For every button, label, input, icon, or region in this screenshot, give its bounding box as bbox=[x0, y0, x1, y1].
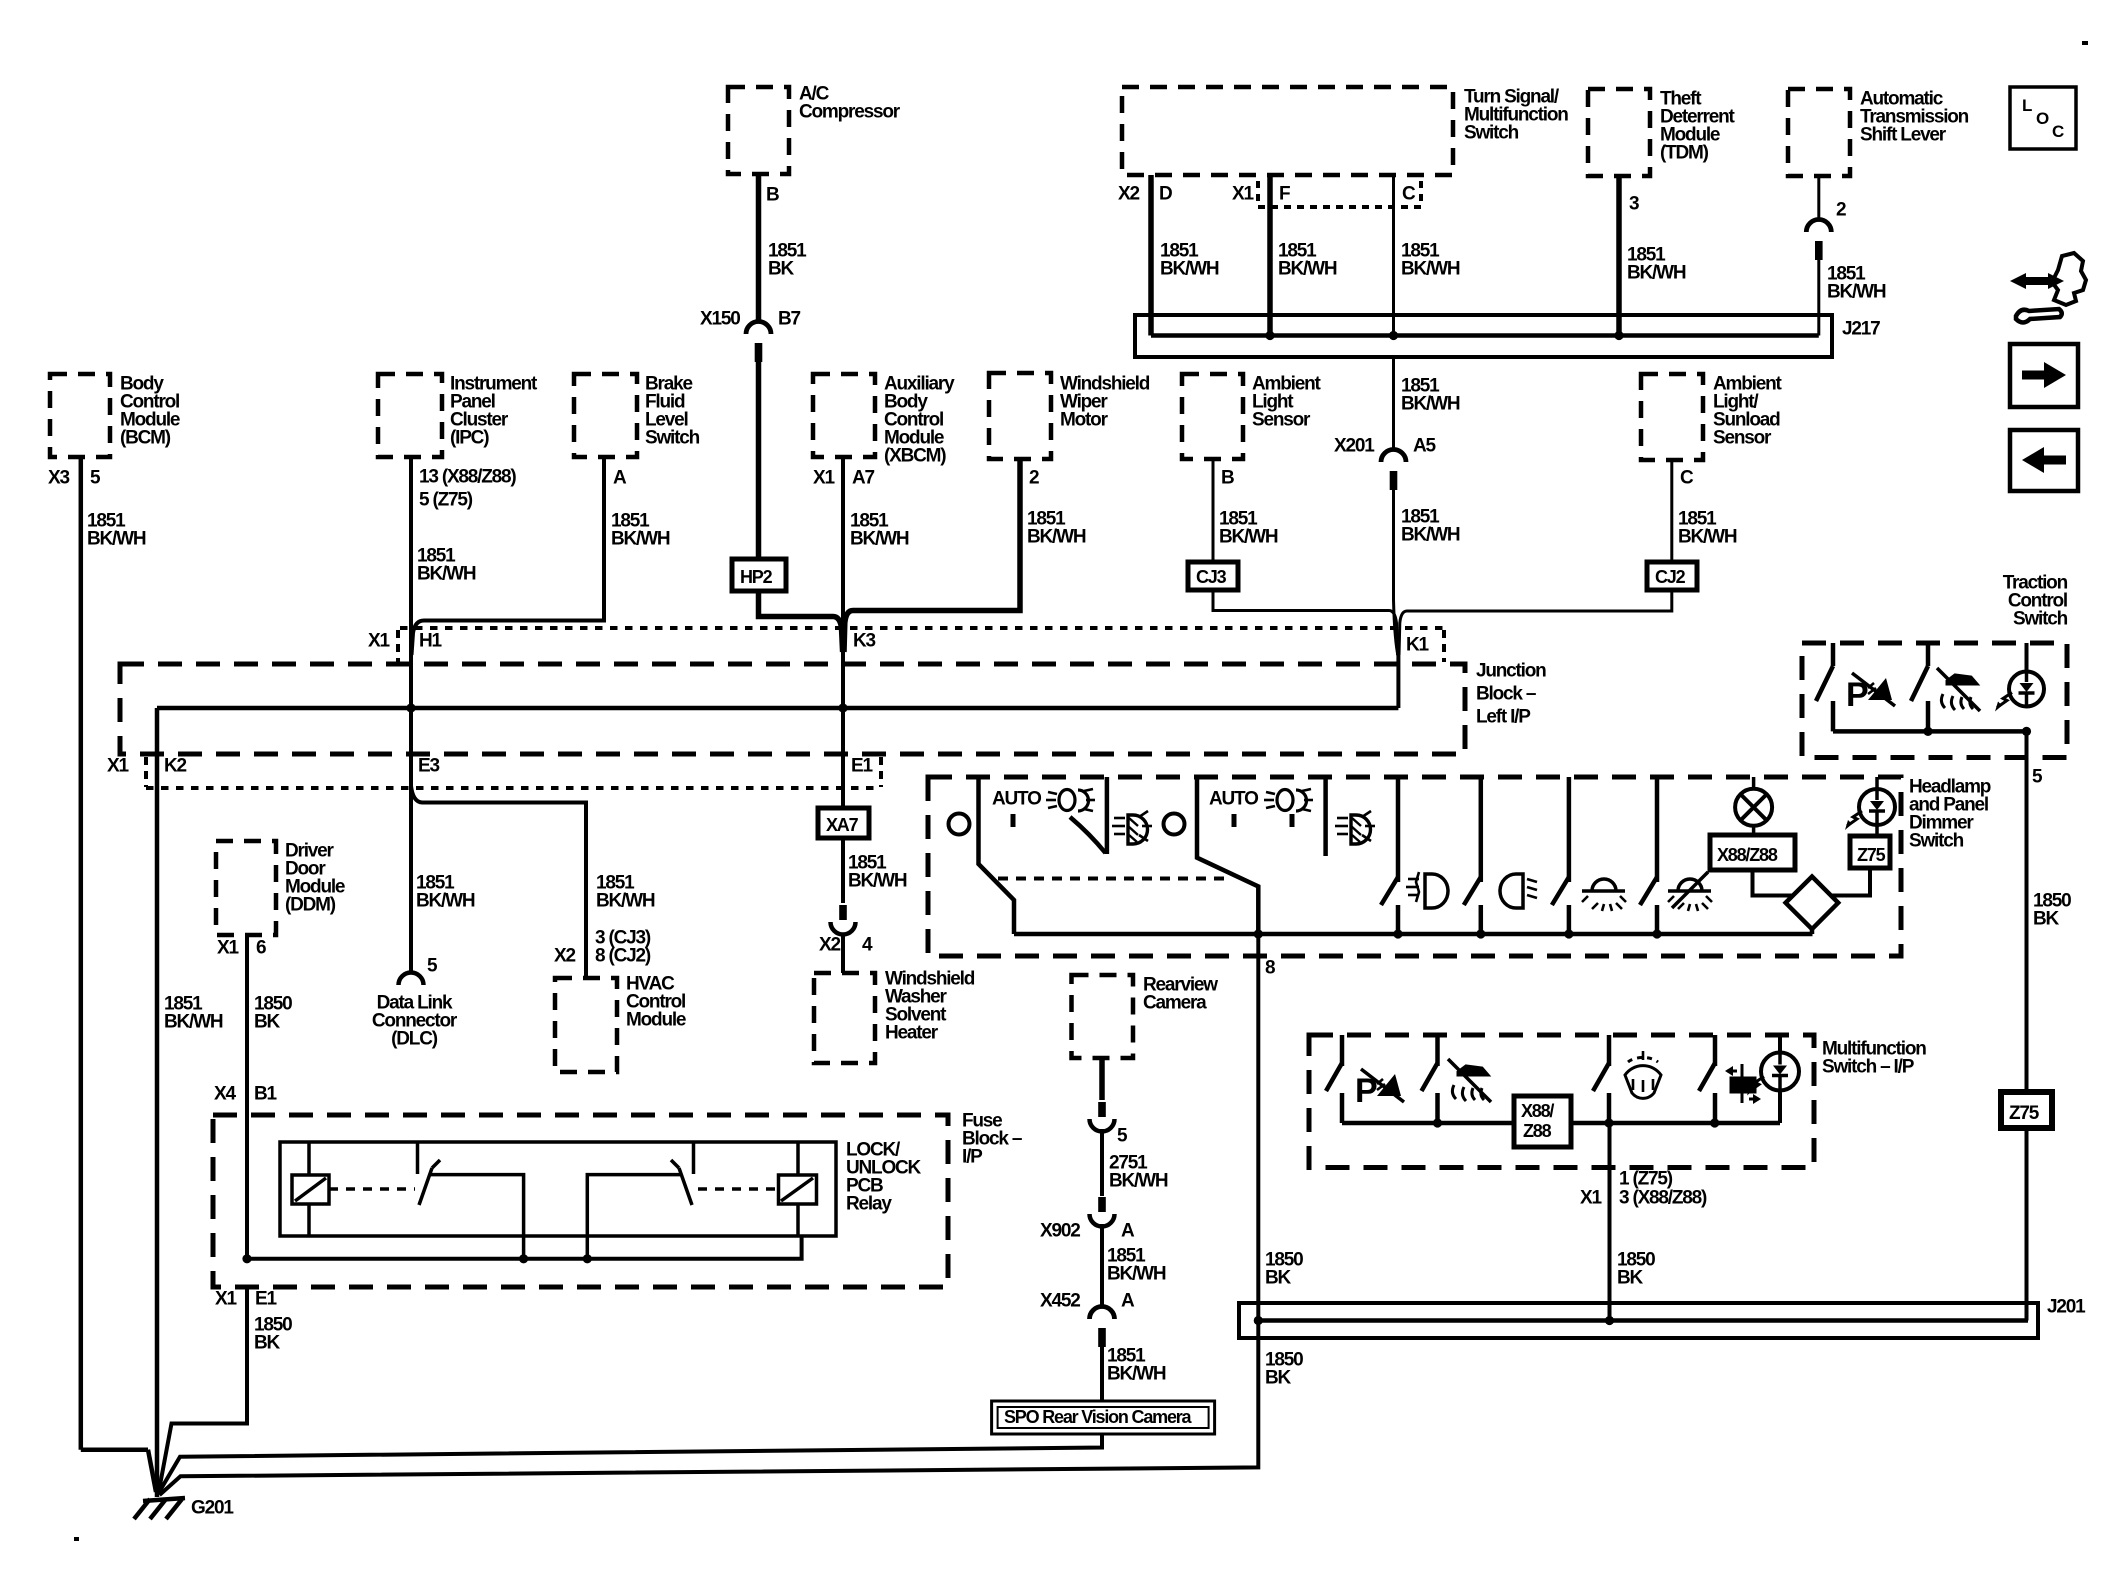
svg-text:(TDM): (TDM) bbox=[1660, 143, 1709, 164]
wire label 1851 BK/WH (ambient light) bbox=[1219, 509, 1278, 548]
wire 2751 BK/WH bbox=[1100, 1129, 1104, 1196]
label X1 (DDM) bbox=[217, 938, 239, 959]
wire 1850 BK MF switch to J201 bbox=[1608, 1123, 1612, 1321]
label J217 bbox=[1842, 319, 1880, 340]
svg-text:BK/WH: BK/WH bbox=[1827, 282, 1886, 303]
svg-text:A: A bbox=[1121, 1221, 1135, 1242]
switch panel lamps bbox=[1552, 777, 1569, 934]
inline connector DLC pin 5 bbox=[399, 972, 424, 985]
svg-text:4: 4 bbox=[862, 935, 873, 956]
svg-text:8: 8 bbox=[1265, 958, 1275, 979]
label Brake Fluid Level Switch bbox=[645, 374, 700, 449]
svg-text:BK/WH: BK/WH bbox=[1160, 259, 1219, 280]
junction dot C/J217 bbox=[1389, 331, 1398, 340]
wire 1851 BK/WH from sunload sensor pin C bbox=[1670, 460, 1673, 562]
label Theft Deterrent Module (TDM) bbox=[1660, 89, 1736, 164]
label Fuse Block - I/P bbox=[962, 1111, 1022, 1168]
svg-text:X150: X150 bbox=[700, 309, 740, 330]
connector separator right of E1 bbox=[879, 757, 883, 787]
svg-text:BK: BK bbox=[768, 259, 795, 280]
label X2 (turn signal) bbox=[1118, 184, 1139, 205]
junction dot relay left/fuse bus bbox=[519, 1254, 528, 1263]
svg-text:Relay: Relay bbox=[846, 1194, 892, 1215]
svg-text:5: 5 bbox=[90, 468, 101, 489]
lamp symbol above X88/Z88 bbox=[1735, 777, 1772, 835]
svg-text:HP2: HP2 bbox=[740, 567, 773, 587]
svg-text:Heater: Heater bbox=[885, 1023, 939, 1044]
svg-text:BK/WH: BK/WH bbox=[87, 529, 146, 550]
icon car skid with slash (MF) bbox=[1448, 1059, 1491, 1102]
svg-text:Z75: Z75 bbox=[1857, 845, 1886, 865]
svg-text:X88/Z88: X88/Z88 bbox=[1717, 845, 1778, 865]
wire K1 into junction block bus bbox=[1396, 652, 1400, 708]
wire CJ3 to junction block K1 bbox=[1213, 590, 1398, 655]
svg-text:BK/WH: BK/WH bbox=[1401, 394, 1460, 415]
svg-text:D: D bbox=[1159, 184, 1172, 205]
svg-text:BK: BK bbox=[254, 1333, 281, 1354]
switch traction A bbox=[1816, 643, 1833, 731]
svg-text:XA7: XA7 bbox=[826, 815, 859, 835]
wire label 1851 BK/WH (sunload) bbox=[1678, 509, 1737, 548]
wire 1850 BK from DDM X1-6 bbox=[245, 935, 249, 1259]
svg-text:BK/WH: BK/WH bbox=[417, 564, 476, 585]
module Theft Deterrent Module TDM (dashed box) bbox=[1588, 89, 1650, 176]
inline connector X150 pin B7 bbox=[746, 322, 771, 363]
junction dot section2/bus bbox=[1254, 929, 1263, 938]
icon parklamp 2 bbox=[1335, 811, 1375, 844]
pin label C (sunload) bbox=[1680, 468, 1694, 489]
junction dot MF defrost bus bbox=[1604, 1118, 1613, 1127]
svg-text:5: 5 bbox=[2032, 767, 2043, 788]
connector row 2 dotted line bbox=[146, 786, 880, 790]
module Traction Control Switch (dashed box) bbox=[1802, 643, 2067, 758]
wire label 1851 BK/WH (IPC) bbox=[417, 546, 476, 585]
junction dot traction B bus bbox=[1923, 727, 1932, 736]
junction dot traction LED bus bbox=[2022, 727, 2031, 736]
label LOCK/UNLOCK PCB Relay bbox=[846, 1140, 922, 1215]
pin label 1 (Z75) 3 (X88/Z88) bbox=[1619, 1169, 1707, 1209]
svg-text:X1: X1 bbox=[813, 468, 835, 489]
junction dot H1 bus bbox=[406, 703, 415, 712]
wire label 1851 BK/WH (HVAC) bbox=[596, 873, 655, 912]
label C bbox=[1402, 184, 1416, 205]
svg-text:BK/WH: BK/WH bbox=[416, 891, 475, 912]
junction dot 8/J201 bbox=[1254, 1316, 1263, 1325]
pin label E1 (fuse block) bbox=[255, 1289, 277, 1310]
label AUTO (section 1) bbox=[992, 789, 1041, 810]
svg-text:BK/WH: BK/WH bbox=[1401, 259, 1460, 280]
svg-text:CJ3: CJ3 bbox=[1196, 567, 1227, 587]
label Rearview Camera bbox=[1143, 975, 1218, 1014]
label A/C Compressor bbox=[799, 84, 901, 123]
wire label 2751 BK/WH bbox=[1109, 1153, 1168, 1192]
svg-text:BK/WH: BK/WH bbox=[1107, 1264, 1166, 1285]
svg-text:BK/WH: BK/WH bbox=[1219, 527, 1278, 548]
svg-text:8 (CJ2): 8 (CJ2) bbox=[595, 946, 651, 967]
wire 1851 BK/WH from XBCM X1-A7 to junction block K3 bbox=[841, 457, 845, 708]
label D bbox=[1159, 184, 1172, 205]
switch MF traction bbox=[1422, 1035, 1438, 1123]
label Ambient Light Sensor bbox=[1252, 374, 1321, 431]
svg-text:Motor: Motor bbox=[1060, 410, 1109, 431]
module Headlamp and Panel Dimmer Switch (dashed box) bbox=[928, 777, 1901, 956]
relay linkage right (dashed) bbox=[698, 1187, 778, 1191]
wire 1851 BK/WH X902 to X452 bbox=[1100, 1224, 1104, 1307]
label Automatic Transmission Shift Lever bbox=[1860, 89, 1969, 146]
wire label 1850 BK (8 upper) bbox=[1265, 1250, 1303, 1289]
module Ambient Light Sensor (dashed box) bbox=[1182, 374, 1243, 459]
wire label 1851 BK/WH (shift lever) bbox=[1827, 264, 1886, 303]
wire label 1850 BK (DDM) bbox=[254, 994, 292, 1033]
pin label 3 (CJ3) 8 (CJ2) bbox=[595, 928, 651, 967]
label X2 (HVAC) bbox=[554, 946, 575, 967]
pin label 2 (wiper) bbox=[1029, 468, 1039, 489]
svg-text:X2: X2 bbox=[1118, 184, 1139, 205]
wire 1851 BK/WH X201 to K1 bbox=[1394, 479, 1399, 658]
label X150 bbox=[700, 309, 740, 330]
label X3 bbox=[48, 468, 69, 489]
svg-text:X1: X1 bbox=[107, 756, 129, 777]
wire label 1851 BK/WH (K2) bbox=[164, 994, 223, 1033]
label X2 (washer) bbox=[819, 935, 840, 956]
svg-text:Camera: Camera bbox=[1143, 993, 1207, 1014]
svg-text:Switch: Switch bbox=[1464, 123, 1519, 144]
wire camera pin 5 stub bbox=[1099, 1058, 1105, 1100]
rotary switch section 2 wiper bbox=[1197, 777, 1258, 934]
wire 1851 BK/WH XA7 to X2 connector bbox=[841, 838, 845, 903]
junction bus J217 bbox=[1135, 315, 1832, 357]
label HVAC Control Module bbox=[626, 974, 686, 1031]
splice Z75 (headlamp) bbox=[1850, 836, 1890, 868]
wire coil left feeds bbox=[307, 1142, 311, 1236]
svg-text:K3: K3 bbox=[853, 631, 876, 652]
label G201 bbox=[191, 1498, 234, 1519]
icon P parking with slash (MF) bbox=[1355, 1069, 1404, 1110]
svg-text:X452: X452 bbox=[1040, 1291, 1080, 1312]
diamond splice bbox=[1786, 877, 1839, 930]
svg-text:(XBCM): (XBCM) bbox=[884, 446, 946, 467]
switch low beam bbox=[1464, 777, 1481, 934]
junction dot relay right/fuse bus bbox=[583, 1254, 592, 1263]
wire label 1851 BK/WH (XBCM) bbox=[850, 511, 909, 550]
label X902 bbox=[1040, 1221, 1080, 1242]
wire 1851 BK/WH from brake fluid switch pin A bbox=[412, 457, 605, 655]
label E3 bbox=[418, 756, 439, 777]
svg-text:X1: X1 bbox=[1580, 1188, 1602, 1209]
label X1 (XBCM) bbox=[813, 468, 835, 489]
wire traction LED top bbox=[2025, 643, 2029, 672]
svg-text:BK: BK bbox=[2033, 909, 2060, 930]
label F bbox=[1279, 184, 1290, 205]
splice X88/Z88 (headlamp) bbox=[1710, 835, 1795, 870]
svg-text:K1: K1 bbox=[1406, 635, 1430, 656]
svg-text:B: B bbox=[766, 185, 779, 206]
svg-text:A7: A7 bbox=[852, 468, 875, 489]
wire pin 2 of shift lever bbox=[1817, 176, 1820, 220]
label K3 bbox=[853, 631, 876, 652]
splice pack CJ3 bbox=[1188, 562, 1238, 590]
svg-text:Left I/P: Left I/P bbox=[1476, 707, 1531, 728]
svg-text:BK: BK bbox=[254, 1012, 281, 1033]
label A5 bbox=[1413, 436, 1437, 457]
icon panel illumination bbox=[1582, 879, 1626, 911]
svg-text:E3: E3 bbox=[418, 756, 439, 777]
label X1 (turn signal) bbox=[1232, 184, 1254, 205]
pin label B1 bbox=[254, 1084, 278, 1105]
LOC legend box bbox=[2010, 87, 2076, 149]
wire 1850 BK fuse block to ground bbox=[159, 1287, 248, 1493]
svg-text:X2: X2 bbox=[554, 946, 575, 967]
label Auxiliary Body Control Module (XBCM) bbox=[884, 374, 955, 467]
wire diamond to bus bbox=[1810, 929, 1815, 934]
pin label B (ambient) bbox=[1221, 468, 1234, 489]
module Body Control Module BCM (dashed box) bbox=[50, 374, 110, 457]
stray mark bottom left bbox=[74, 1537, 79, 1541]
switch fog lamps bbox=[1381, 777, 1398, 934]
label Junction Block - Left I/P bbox=[1476, 661, 1546, 728]
connector separator X1/H1 bbox=[396, 630, 400, 662]
wire label 1851 BK/WH (washer) bbox=[848, 853, 907, 892]
pin label 8 bbox=[1265, 958, 1275, 979]
svg-text:C: C bbox=[1402, 184, 1416, 205]
splice Z75 (right) bbox=[2001, 1092, 2052, 1128]
module Brake Fluid Level Switch (dashed box) bbox=[574, 374, 637, 457]
svg-text:BK/WH: BK/WH bbox=[1401, 525, 1460, 546]
label J201 bbox=[2047, 1297, 2086, 1318]
detent tick under icon 2 bbox=[1290, 814, 1295, 827]
wire 1851 BK/WH junction block K2 to ground bbox=[155, 708, 160, 1497]
pin label B (A/C) bbox=[766, 185, 779, 206]
detent tick under AUTO 2 bbox=[1232, 814, 1237, 827]
LED indicator (MF) bbox=[1747, 1035, 1799, 1123]
icon headlamp low beam bbox=[1500, 874, 1537, 908]
label X1 (junction row 2) bbox=[107, 756, 129, 777]
label X1 (junction row 1) bbox=[368, 631, 390, 652]
pin label 4 (washer) bbox=[862, 935, 873, 956]
svg-text:O: O bbox=[2036, 109, 2049, 128]
svg-text:BK/WH: BK/WH bbox=[611, 529, 670, 550]
label X1 (fuse block bottom) bbox=[215, 1289, 237, 1310]
wire label 1851 BK/WH (DLC) bbox=[416, 873, 475, 912]
module Instrument Panel Cluster IPC (dashed box) bbox=[378, 374, 442, 457]
svg-text:F: F bbox=[1279, 184, 1290, 205]
svg-text:K2: K2 bbox=[164, 756, 187, 777]
module A/C Compressor (dashed box) bbox=[728, 87, 789, 174]
rotary off position circle 1 bbox=[949, 814, 970, 835]
svg-text:3 (X88/Z88): 3 (X88/Z88) bbox=[1619, 1188, 1707, 1209]
wire 1851 BK/WH from ambient light sensor pin B bbox=[1212, 459, 1215, 562]
label Body Control Module (BCM) bbox=[120, 374, 180, 449]
label X1 (MF) bbox=[1580, 1188, 1602, 1209]
svg-text:X4: X4 bbox=[214, 1084, 236, 1105]
relay blade right bbox=[671, 1160, 692, 1205]
label Turn Signal/Multifunction Switch bbox=[1464, 87, 1568, 144]
svg-text:BK/WH: BK/WH bbox=[850, 529, 909, 550]
svg-text:X1: X1 bbox=[217, 938, 239, 959]
junction dot DDM/fuse bus bbox=[242, 1254, 251, 1263]
svg-text:X1: X1 bbox=[368, 631, 390, 652]
wire pin F of turn signal switch bbox=[1267, 175, 1273, 336]
svg-text:BK/WH: BK/WH bbox=[1107, 1364, 1166, 1385]
svg-text:Switch: Switch bbox=[2013, 609, 2068, 630]
rotary switch section 1 wiper bbox=[979, 777, 1015, 934]
label H1 bbox=[419, 631, 443, 652]
wire 1851 BK/WH from IPC to junction block H1 bbox=[409, 457, 413, 708]
wire 1851 BK/WH below X150 bbox=[756, 351, 762, 559]
inline connector X201 pin A5 bbox=[1381, 450, 1406, 491]
svg-text:Sensor: Sensor bbox=[1252, 410, 1311, 431]
svg-text:A: A bbox=[1121, 1291, 1135, 1312]
SPO Rear Vision Camera box bbox=[992, 1401, 1215, 1434]
inline connector X902 pin A bbox=[1090, 1197, 1115, 1227]
svg-text:BK/WH: BK/WH bbox=[1278, 259, 1337, 280]
icon arrow-right box bbox=[2010, 344, 2078, 407]
icon auto headlamp 1 bbox=[1046, 789, 1095, 811]
wire pin C of turn signal switch bbox=[1392, 175, 1395, 336]
module Junction Block - Left I/P (dashed box) bbox=[120, 664, 1465, 754]
svg-text:Junction: Junction bbox=[1476, 661, 1546, 682]
relay contact post left bbox=[416, 1142, 420, 1174]
wire 1851 BK/WH from BCM X3-5 to ground bbox=[81, 457, 156, 1492]
svg-text:BK/WH: BK/WH bbox=[848, 871, 907, 892]
svg-text:Z75: Z75 bbox=[2009, 1103, 2040, 1124]
wire pin 3 of TDM bbox=[1616, 176, 1622, 336]
wire CJ2 to junction block K1 bbox=[1399, 590, 1672, 655]
icon windshield defrost bbox=[1625, 1051, 1661, 1098]
module Rearview Camera (dashed box) bbox=[1072, 975, 1134, 1058]
relay coil left bbox=[292, 1175, 329, 1204]
rotary switch section 1 right post bbox=[1105, 777, 1110, 854]
inline connector shift lever pin 2 bbox=[1806, 220, 1831, 261]
svg-text:BK/WH: BK/WH bbox=[164, 1012, 223, 1033]
wire label 1850 BK (fuse-ground) bbox=[254, 1315, 292, 1354]
pin label 5 (DLC) bbox=[427, 956, 438, 977]
relay linkage left (dashed) bbox=[329, 1187, 415, 1191]
wire X2 to washer heater bbox=[841, 934, 845, 973]
wire E1 to XA7 bbox=[841, 708, 845, 808]
wire 1851 BK/WH from J217 to X201 bbox=[1392, 357, 1395, 450]
svg-text:(DDM): (DDM) bbox=[285, 895, 336, 916]
switch MF rear defog bbox=[1699, 1035, 1715, 1123]
connector row dotted line (X1) bbox=[400, 626, 1445, 630]
wire K3 into junction block bus bbox=[841, 652, 845, 708]
wire label 1851 BK/WH (brake) bbox=[611, 511, 670, 550]
svg-text:C: C bbox=[1680, 468, 1694, 489]
svg-text:CJ2: CJ2 bbox=[1655, 567, 1686, 587]
pin label 5 (BCM) bbox=[90, 468, 101, 489]
svg-text:H1: H1 bbox=[419, 631, 443, 652]
pin label A (X902) bbox=[1121, 1221, 1135, 1242]
svg-text:L: L bbox=[2022, 96, 2032, 115]
detent tick under AUTO 1 bbox=[1011, 814, 1016, 827]
inline connector X2 pin 4 (washer) bbox=[831, 905, 856, 935]
junction dot F/J217 bbox=[1265, 331, 1274, 340]
svg-text:Switch: Switch bbox=[645, 428, 700, 449]
module Windshield Wiper Motor (dashed box) bbox=[989, 373, 1051, 459]
junction dot MF traction bus bbox=[1433, 1118, 1442, 1127]
splice HP2 bbox=[732, 559, 786, 591]
pin label 5 (camera) bbox=[1117, 1126, 1128, 1147]
label K2 bbox=[164, 756, 187, 777]
junction dot dome/bus bbox=[1652, 929, 1661, 938]
svg-text:Module: Module bbox=[626, 1010, 686, 1031]
svg-text:B1: B1 bbox=[254, 1084, 278, 1105]
svg-text:BK/WH: BK/WH bbox=[1109, 1171, 1168, 1192]
svg-text:BK: BK bbox=[1265, 1268, 1292, 1289]
module Auxiliary Body Control Module XBCM (dashed box) bbox=[813, 374, 875, 457]
svg-text:I/P: I/P bbox=[962, 1147, 983, 1168]
bus inside traction switch bbox=[1833, 729, 2027, 734]
svg-text:2: 2 bbox=[1029, 468, 1039, 489]
pin label 13 (X88/Z88) bbox=[419, 467, 516, 511]
junction dot K3 bus bbox=[838, 703, 847, 712]
icon auto headlamp 2 bbox=[1264, 789, 1313, 811]
wire label 1851 BK/WH (camera low) bbox=[1107, 1346, 1166, 1385]
splice XA7 bbox=[818, 808, 869, 838]
pin label 5 (traction) bbox=[2032, 767, 2043, 788]
svg-text:Switch – I/P: Switch – I/P bbox=[1822, 1057, 1915, 1078]
pin label A (brake) bbox=[613, 468, 627, 489]
label Traction Control Switch bbox=[2003, 573, 2068, 630]
label X201 bbox=[1334, 436, 1375, 457]
wire X88/Z88 to diamond bbox=[1753, 870, 1795, 896]
svg-text:BK/WH: BK/WH bbox=[1627, 263, 1686, 284]
svg-text:(IPC): (IPC) bbox=[450, 428, 489, 449]
connector separator X1/K2 bbox=[144, 757, 148, 787]
label X452 bbox=[1040, 1291, 1080, 1312]
svg-text:A: A bbox=[613, 468, 627, 489]
connector outline X1 dotted bbox=[1258, 181, 1421, 207]
junction dot MF rear defog bus bbox=[1710, 1118, 1719, 1127]
wire 1851 BK from A/C Compressor pin B bbox=[756, 174, 762, 322]
relay wire right to bus bbox=[587, 1175, 681, 1259]
rotary off position circle 2 bbox=[1164, 814, 1185, 835]
switch traction B bbox=[1911, 643, 1928, 731]
module Driver Door Module DDM (dashed box) bbox=[216, 841, 276, 935]
svg-text:X2: X2 bbox=[819, 935, 840, 956]
label Instrument Panel Cluster (IPC) bbox=[450, 374, 538, 449]
svg-text:BK/WH: BK/WH bbox=[1027, 527, 1086, 548]
module Fuse Block - I/P (dashed box) bbox=[213, 1115, 948, 1287]
wire 1850 BK pin 8 to J201 and ground bbox=[160, 934, 1259, 1495]
wire coil right feeds bbox=[796, 1142, 800, 1236]
label Windshield Wiper Motor bbox=[1060, 374, 1150, 431]
wire Z75 to J201 bbox=[2025, 1128, 2029, 1321]
svg-text:SPO Rear Vision Camera: SPO Rear Vision Camera bbox=[1004, 1407, 1193, 1427]
wire label 1850 BK (8 lower) bbox=[1265, 1350, 1303, 1389]
module Ambient Light/Sunload Sensor (dashed box) bbox=[1641, 374, 1703, 460]
splice X88/Z88 (MF) bbox=[1514, 1096, 1571, 1147]
wire label 1850 BK (MF) bbox=[1617, 1250, 1655, 1289]
relay blade left bbox=[419, 1160, 440, 1205]
module Multifunction Switch - I/P (dashed box) bbox=[1309, 1035, 1814, 1168]
svg-text:G201: G201 bbox=[191, 1498, 234, 1519]
svg-text:X1: X1 bbox=[215, 1289, 237, 1310]
svg-text:E1: E1 bbox=[255, 1289, 277, 1310]
junction bus J201 bbox=[1239, 1303, 2038, 1338]
module Turn Signal/Multifunction Switch (dashed box) bbox=[1122, 87, 1453, 175]
inline connector camera pin 5 bbox=[1090, 1102, 1115, 1132]
module Windshield Washer Solvent Heater (dashed box) bbox=[814, 973, 875, 1063]
icon arrow-left box bbox=[2010, 430, 2078, 491]
svg-text:Block –: Block – bbox=[1476, 684, 1536, 705]
svg-text:BK/WH: BK/WH bbox=[1678, 527, 1737, 548]
svg-text:B: B bbox=[1221, 468, 1234, 489]
switch blade section 1 bbox=[1070, 817, 1106, 853]
label AUTO (section 2) bbox=[1209, 789, 1258, 810]
svg-text:X3: X3 bbox=[48, 468, 69, 489]
svg-text:X1: X1 bbox=[1232, 184, 1254, 205]
